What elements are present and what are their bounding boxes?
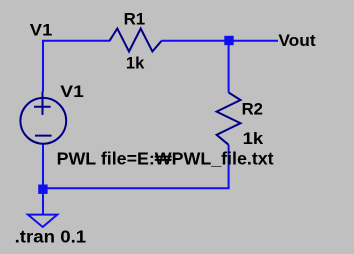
wire: bottom rail horizontal xyxy=(43,187,230,189)
resistor R1 (zigzag body) xyxy=(110,29,162,52)
voltage source V1 pin stub + plus sign vertical xyxy=(42,92,44,115)
wire: top horizontal left segment (V1 node to R1) xyxy=(42,40,110,42)
svg-text:1k: 1k xyxy=(243,130,264,148)
resistor R2 (zigzag body) xyxy=(217,93,241,145)
svg-text:R1: R1 xyxy=(124,11,146,29)
svg-text:R2: R2 xyxy=(242,101,263,119)
ground symbol (triangle) xyxy=(28,215,57,227)
voltage source V1 plus sign horizontal xyxy=(34,106,51,108)
junction node at ground rail (blue square) xyxy=(38,185,47,194)
voltage source V1 (circle body) xyxy=(20,98,66,144)
svg-text:V1: V1 xyxy=(60,83,84,101)
svg-text:PWL file=E:₩PWL_file.txt: PWL file=E:₩PWL_file.txt xyxy=(57,148,274,168)
svg-text:V1: V1 xyxy=(30,22,53,40)
wire: left vertical (source bottom to ground) xyxy=(42,144,44,215)
wire: top horizontal right segment (R1 to Vout) xyxy=(162,40,279,42)
wire: right vertical (junction to R2 top) xyxy=(228,41,230,93)
wire: right vertical (R2 bottom to rail) xyxy=(228,145,230,188)
wire: left vertical (node V1 down to source top) xyxy=(42,40,44,92)
voltage source V1 minus sign xyxy=(35,135,52,137)
svg-text:Vout: Vout xyxy=(278,32,316,50)
svg-text:.tran 0.1: .tran 0.1 xyxy=(15,227,87,247)
svg-text:1k: 1k xyxy=(126,55,145,73)
junction node at Vout (blue square) xyxy=(224,36,233,45)
